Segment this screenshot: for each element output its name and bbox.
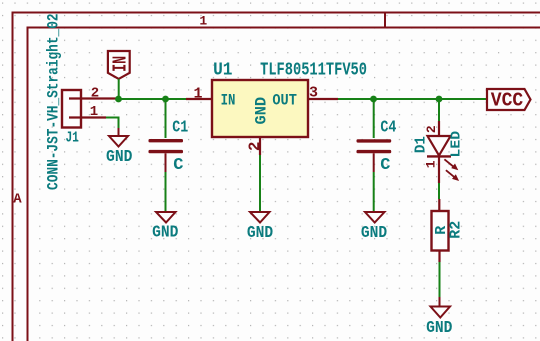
svg-text:1: 1	[193, 86, 202, 103]
svg-text:TLF80511TFV50: TLF80511TFV50	[260, 61, 367, 81]
ground at U1	[247, 212, 273, 243]
svg-text:IN: IN	[109, 56, 131, 72]
svg-text:IN: IN	[221, 91, 236, 109]
svg-text:1: 1	[423, 160, 438, 168]
svg-text:2: 2	[424, 125, 439, 133]
junction at IN flag	[115, 96, 122, 103]
svg-text:3: 3	[309, 85, 318, 102]
power symbol VCC	[487, 89, 531, 112]
pin name OUT	[272, 91, 297, 109]
wire IN flag to rail	[118, 79, 120, 99]
reference J1	[65, 129, 79, 146]
junction at C4	[370, 96, 377, 103]
value C of C1	[173, 156, 183, 175]
svg-text:GND: GND	[152, 224, 178, 243]
wire R2 to ground	[438, 251, 440, 307]
svg-text:C4: C4	[380, 118, 396, 137]
pin number 2 of U1 (rotated)	[246, 141, 264, 151]
svg-text:C1: C1	[172, 118, 188, 137]
power flag IN	[108, 51, 131, 79]
wire main right rail	[338, 98, 487, 100]
wire rail to LED	[438, 99, 440, 121]
pin 3 stub of U1	[308, 98, 338, 100]
regulator U1 body	[212, 80, 308, 137]
value R of R2 (rotated)	[433, 226, 450, 235]
svg-text:LED: LED	[448, 131, 464, 158]
value LED (rotated)	[448, 131, 464, 158]
value C of C4	[380, 156, 390, 175]
svg-text:OUT: OUT	[272, 91, 297, 109]
pin number 2 of D1 (rotated)	[424, 125, 439, 133]
ground at R2	[426, 307, 452, 338]
pin 1 stub of U1	[186, 98, 212, 100]
value CONN-JST-VH_Straight_02	[45, 13, 63, 190]
pin name GND (rotated)	[252, 97, 270, 125]
pin number 1 of U1	[193, 86, 202, 103]
wire J1 pin1 down to ground	[106, 118, 119, 137]
LED D1	[427, 121, 459, 183]
junction at LED	[436, 96, 443, 103]
svg-text:GND: GND	[252, 97, 270, 125]
junction at C1	[162, 96, 169, 103]
reference R2 (rotated)	[447, 221, 464, 239]
reference C4	[380, 118, 396, 137]
svg-text:J1: J1	[65, 129, 79, 146]
capacitor C4	[357, 99, 392, 212]
svg-text:2: 2	[246, 141, 264, 151]
svg-text:1: 1	[90, 104, 98, 120]
ground at C1	[152, 212, 178, 243]
svg-text:R2: R2	[447, 221, 464, 239]
svg-text:GND: GND	[247, 224, 273, 243]
svg-text:A: A	[13, 191, 22, 207]
pin 2 stub of U1	[259, 137, 261, 155]
svg-text:GND: GND	[361, 224, 387, 243]
ground at J1	[106, 136, 132, 167]
reference D1 (rotated)	[412, 136, 429, 153]
pin number 3 of U1	[309, 85, 318, 102]
ground at C4	[361, 212, 387, 243]
svg-text:C: C	[380, 156, 390, 175]
svg-text:CONN-JST-VH_Straight_02: CONN-JST-VH_Straight_02	[45, 13, 63, 190]
reference U1	[213, 61, 233, 81]
wire main left rail	[119, 98, 187, 100]
svg-text:VCC: VCC	[491, 90, 524, 112]
pin number 1 of J1	[90, 104, 98, 120]
svg-text:GND: GND	[426, 319, 452, 338]
connector J1	[62, 90, 119, 128]
svg-text:GND: GND	[106, 148, 132, 167]
svg-text:D1: D1	[412, 136, 429, 153]
pin number 2 of J1	[91, 85, 99, 101]
svg-text:C: C	[173, 156, 183, 175]
pin number 1 of D1 (rotated)	[423, 160, 438, 168]
capacitor C1	[149, 99, 184, 212]
wire U1 GND pin to ground	[259, 155, 261, 212]
svg-text:1: 1	[199, 14, 207, 29]
value TLF80511TFV50	[260, 61, 367, 81]
wire LED to R2	[438, 183, 440, 211]
svg-text:2: 2	[91, 85, 99, 101]
reference C1	[172, 118, 188, 137]
resistor R2	[432, 211, 449, 251]
pin name IN	[221, 91, 236, 109]
svg-text:U1: U1	[213, 61, 233, 81]
